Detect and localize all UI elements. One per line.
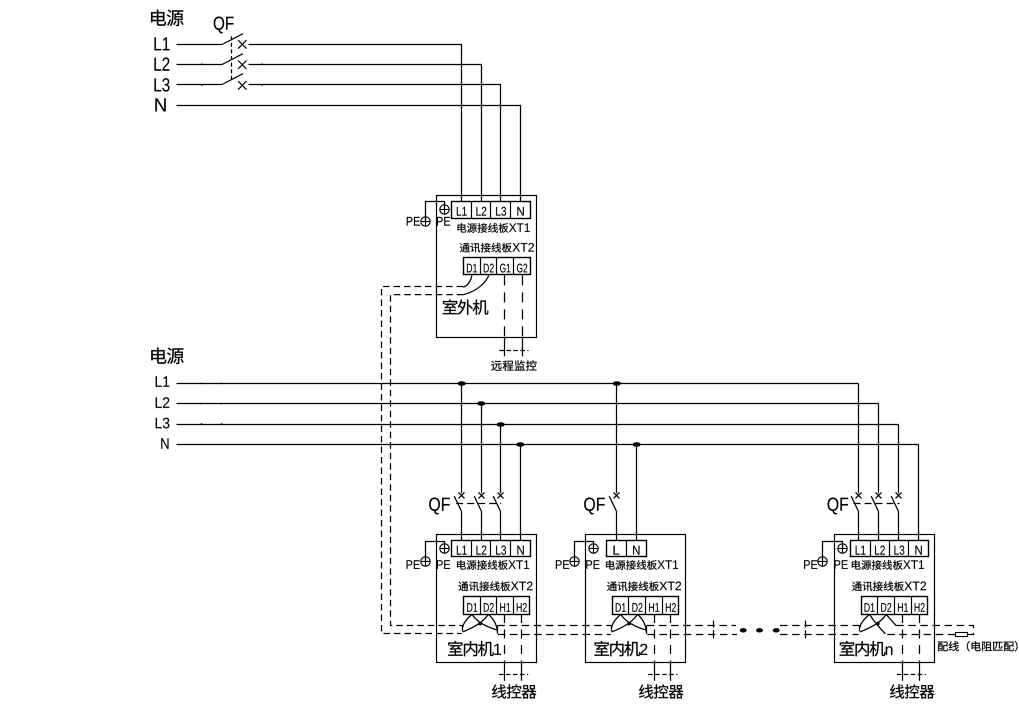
wire drop unit1 N — [520, 445, 522, 541]
comm bus outer dashed run (outdoor D1 to indoor lower) — [382, 287, 464, 634]
junction L1-unit1 — [458, 381, 466, 386]
terminal G2 (outdoor XT2) — [517, 264, 527, 273]
terminal L2 (室内机n XT1) — [875, 546, 885, 555]
comm bus lower segment unit2-dots — [647, 634, 737, 636]
terminal G1 (outdoor XT2) — [500, 264, 510, 273]
breaker blade unitn L1 — [851, 496, 858, 511]
terminal D1 (室内机2 XT2) — [616, 603, 626, 612]
earth terminal symbol inside 室内机n — [838, 544, 847, 553]
wire D1 to right bus — [472, 614, 498, 630]
wire G2 below box — [522, 338, 524, 357]
breaker blade unitn L3 — [891, 496, 898, 511]
label 电源 (top power source) — [151, 10, 183, 27]
wire H1 below box (室内机2) — [654, 663, 656, 681]
室内机2 comm terminal board XT2 — [613, 597, 679, 615]
wire H2 to wired controller (室内机1) — [521, 614, 523, 663]
breaker QF linkage (top) — [231, 36, 233, 80]
comm bus upper segment unit1-unit2 — [497, 625, 611, 627]
unit number 2 — [640, 644, 647, 655]
label 配线(电阻匹配) — [938, 641, 1018, 651]
wire unit1 L2 to XT1 — [481, 511, 483, 540]
unit number 1 — [494, 644, 501, 655]
crossover junction dot (unitn) — [876, 622, 880, 626]
wire D2 to termination upper — [886, 614, 896, 625]
wire H2 below box (室内机2) — [670, 663, 672, 681]
label 电源接线板 (outdoor XT1) — [458, 223, 509, 233]
wire G2 to remote monitor — [522, 275, 524, 337]
wire D2 to right bus — [488, 614, 497, 632]
label 电源接线板 (室内机1 XT1) — [457, 560, 508, 570]
wire L2 to outdoor XT1 — [249, 65, 482, 202]
wire joint specks (top) — [201, 63, 203, 65]
label 通讯接线板 (室内机2 XT2) — [607, 581, 659, 591]
outdoor comm terminal board XT2 — [464, 258, 531, 275]
XT1 divider 2 (outdoor) — [490, 201, 492, 218]
wire joint specks (lower) — [201, 383, 203, 385]
wire L2 to breaker (top) — [177, 64, 223, 66]
terminal D2 (室内机n XT2) — [881, 603, 891, 612]
terminal L2 (室内机1 XT1) — [476, 546, 486, 555]
terminal L (室内机2 XT1) — [613, 546, 619, 555]
wire unitn L1 to XT1 — [858, 511, 860, 540]
XT2 divider 3 (outdoor) — [513, 258, 515, 275]
wire H1 to wired controller (室内机2) — [654, 614, 656, 663]
wire H2 below box (室内机1) — [521, 663, 523, 681]
earth terminal symbol inside 室内机2 — [589, 544, 598, 553]
PE label left (outdoor) — [407, 217, 420, 226]
bus break tick 2 lower — [805, 630, 807, 638]
terminal D2 (室内机1 XT2) — [484, 603, 494, 612]
PE label right (室内机n) — [834, 560, 847, 569]
wire drop unit1 L1 — [461, 384, 463, 494]
wired controller cable marker (室内机2) — [648, 674, 677, 676]
label 电源 (lower power source) — [151, 348, 183, 365]
outdoor power terminal board XT1 — [452, 202, 531, 219]
wire N feeder (lower) — [177, 444, 919, 446]
junction L3-unit1 — [497, 422, 505, 427]
wire D2 to left bus (unitn) — [860, 614, 886, 632]
wire H1 to wired controller (室内机n) — [902, 614, 904, 663]
comm bus lower segment dots-unitn — [780, 634, 859, 636]
breaker contact x unit2 L — [614, 492, 620, 498]
wire drop unit2 L — [616, 384, 618, 494]
wire D1 to left bus (unitn) — [860, 614, 870, 627]
bus stub right — [497, 626, 499, 634]
indoor unit box 室内机1 — [437, 535, 537, 663]
室内机n XT2 divider 1 — [877, 597, 879, 614]
wire N to outdoor XT1 — [177, 106, 521, 202]
terminal H2 (室内机1 XT2) — [517, 603, 527, 612]
label 室外机 (outdoor unit) — [443, 299, 489, 314]
PE wire (室内机2) — [575, 542, 594, 562]
terminal N (室内机1 XT1) — [517, 546, 523, 555]
breaker blade unitn L2 — [871, 496, 878, 511]
breaker QF pole L1 blade — [222, 34, 243, 45]
junction N-unit2 — [633, 442, 641, 447]
室内机2 XT2 divider 2 — [645, 597, 647, 614]
wire L2 feeder (lower) — [177, 403, 879, 405]
terminal H1 (室内机n XT2) — [898, 603, 908, 612]
室内机1 comm terminal board XT2 — [464, 597, 530, 615]
breaker QF pole L2 contact x — [238, 61, 246, 69]
bus break tick 2 upper — [805, 621, 807, 628]
wire H2 below box (室内机n) — [919, 663, 921, 681]
wired controller cable marker (室内机1) — [499, 674, 528, 676]
PE label right (室内机2) — [586, 560, 599, 569]
室内机n XT1 divider 1 — [870, 540, 872, 557]
junction N-unit1 — [516, 442, 524, 447]
indoor unit box 室内机n — [835, 535, 935, 663]
breaker blade unit1 L2 — [474, 496, 481, 511]
wire outdoor D2 to bus — [463, 275, 489, 294]
XT1 divider 1 (outdoor) — [471, 201, 473, 218]
bus break tick 1 lower — [713, 630, 715, 638]
label 通讯接线板 (室内机1 XT2) — [459, 581, 511, 591]
remote monitor cable marker — [499, 350, 528, 352]
PE earth symbol (outdoor) — [421, 217, 430, 226]
terminal H2 (室内机2 XT2) — [666, 603, 676, 612]
breaker contact x unit1 L3 — [498, 492, 504, 498]
label 室内机n — [840, 641, 886, 656]
node L1 label (lower) — [156, 376, 170, 386]
resistor matching resistor — [956, 633, 968, 637]
breaker QF linkage unit1 — [456, 503, 501, 505]
terminal D2 (室内机2 XT2) — [632, 603, 642, 612]
termination loop lower dashed — [886, 634, 956, 636]
label 线控器 (室内机2) — [639, 684, 683, 698]
terminal N (outdoor XT1) — [517, 207, 523, 216]
terminal L1 (outdoor XT1) — [457, 207, 467, 216]
wire unitn L3 to XT1 — [898, 511, 900, 540]
wire drop unit2 N — [636, 445, 638, 541]
wire D1 to left bus — [463, 614, 472, 627]
label 电源接线板 (室内机n XT1) — [852, 560, 903, 570]
室内机1 XT2 divider 3 — [513, 597, 515, 614]
comm bus lower segment unit1-unit2 — [498, 634, 611, 636]
室内机1 XT1 divider 3 — [510, 540, 512, 557]
室内机1 XT2 divider 2 — [496, 597, 498, 614]
earth terminal symbol inside 室内机1 — [440, 544, 449, 553]
breaker contact x unit1 L1 — [459, 492, 465, 498]
terminal D1 (outdoor XT2) — [467, 264, 477, 273]
label 远程监控 (remote monitoring) — [491, 360, 536, 370]
bus break tick 1 upper — [713, 621, 715, 628]
wire L3 to breaker (top) — [177, 84, 223, 86]
wire L1 feeder (lower) — [177, 383, 859, 385]
室内机n power terminal board XT1 — [851, 541, 929, 557]
earth terminal symbol inside outdoor box — [440, 205, 449, 214]
crossover junction dot — [627, 622, 631, 626]
terminal L3 (室内机n XT1) — [894, 546, 904, 555]
XT1 divider 3 (outdoor) — [510, 201, 512, 218]
terminal H2 (室内机n XT2) — [915, 603, 925, 612]
wire H1 below box (室内机1) — [504, 663, 506, 681]
wire unit1 L1 to XT1 — [461, 511, 463, 540]
breaker contact x unit1 L2 — [479, 492, 485, 498]
wire unit1 L3 to XT1 — [500, 511, 502, 540]
node L3 label (lower) — [156, 418, 170, 429]
node L2 label (lower) — [156, 397, 170, 408]
室内机n XT2 divider 3 — [911, 597, 913, 614]
label 线控器 (室内机1) — [492, 684, 536, 698]
wire H1 to wired controller (室内机1) — [504, 614, 506, 663]
室内机n comm terminal board XT2 — [862, 597, 928, 615]
terminal D1 (室内机1 XT2) — [467, 603, 477, 612]
PE label left (室内机2) — [556, 560, 569, 569]
breaker QF label unitn — [828, 498, 849, 515]
breaker blade unit2 L — [609, 496, 616, 511]
PE earth symbol (室内机2) — [570, 557, 579, 566]
node L1 label (top) — [154, 37, 169, 50]
wire G1 to remote monitor — [504, 275, 506, 337]
PE earth symbol (室内机n) — [818, 557, 827, 566]
wire H2 to wired controller (室内机2) — [670, 614, 672, 663]
breaker QF label (top) — [214, 17, 234, 34]
breaker QF label unit1 — [429, 498, 450, 515]
terminal D1 (室内机n XT2) — [865, 603, 875, 612]
wire D2 to right bus — [637, 614, 646, 632]
junction L1-unit2 — [613, 381, 621, 386]
wire D1 to left bus — [612, 614, 621, 627]
室内机n XT1 divider 2 — [889, 540, 891, 557]
label 室内机1 — [448, 641, 494, 656]
wire unitn L2 to XT1 — [878, 511, 880, 540]
indoor unit box 室内机2 — [586, 535, 686, 663]
wire D1 to termination lower — [870, 614, 886, 634]
XT2 divider 2 (outdoor) — [496, 258, 498, 275]
terminal D2 (outdoor XT2) — [484, 264, 494, 273]
PE label left (室内机1) — [406, 560, 419, 569]
室内机2 power terminal board XT1 — [607, 541, 647, 557]
terminal L1 (室内机1 XT1) — [457, 546, 467, 555]
crossover junction dot — [478, 622, 482, 626]
室内机2 XT1 divider 1 — [626, 540, 628, 557]
node N label (lower) — [161, 438, 168, 448]
terminal H1 (室内机2 XT2) — [649, 603, 659, 612]
wire L3 feeder (lower) — [177, 424, 899, 426]
wire drop unit1 L2 — [481, 404, 483, 494]
PE label right (outdoor) — [437, 217, 450, 226]
terminal L1 (室内机n XT1) — [856, 546, 866, 555]
wire drop unitn L3 — [898, 425, 900, 494]
wire H1 below box (室内机n) — [902, 663, 904, 681]
PE label right (室内机1) — [437, 560, 450, 569]
breaker contact x unitn L2 — [876, 492, 882, 498]
comm bus inner dashed run (outdoor D2 to indoor upper) — [391, 295, 464, 626]
室内机2 XT2 divider 1 — [628, 597, 630, 614]
label 通讯接线板 (outdoor XT2) — [460, 243, 512, 253]
室内机1 XT2 divider 1 — [480, 597, 482, 614]
室内机1 power terminal board XT1 — [452, 541, 531, 557]
terminal L3 (室内机1 XT1) — [496, 546, 506, 555]
terminal N (室内机2 XT1) — [633, 546, 639, 555]
室内机2 XT2 divider 3 — [662, 597, 664, 614]
bus stub left — [462, 626, 464, 632]
node L3 label (top) — [154, 78, 169, 91]
wire L3 to outdoor XT1 — [249, 85, 501, 202]
wire outdoor D1 to bus — [463, 275, 472, 287]
terminal H1 (室内机1 XT2) — [500, 603, 510, 612]
PE wire (室内机n) — [823, 542, 843, 562]
terminal N (室内机n XT1) — [915, 546, 921, 555]
室内机1 XT1 divider 1 — [471, 540, 473, 557]
label 线控器 (室内机n) — [890, 684, 934, 698]
wire drop unitn N — [918, 445, 920, 541]
breaker QF pole L2 blade — [222, 54, 243, 65]
XT2 divider 1 (outdoor) — [480, 258, 482, 275]
wire G1 below box — [504, 338, 506, 357]
ellipsis dots (more units) — [740, 628, 747, 632]
wire L1 to outdoor XT1 — [249, 45, 462, 202]
breaker QF pole L1 contact x — [238, 40, 246, 48]
bus stub left — [611, 626, 613, 632]
breaker blade unit1 L3 — [493, 496, 500, 511]
termination loop upper dashed — [896, 626, 973, 635]
label 电源接线板 (室内机2 XT1) — [606, 560, 657, 570]
室内机n XT2 divider 2 — [894, 597, 896, 614]
室内机1 XT1 divider 2 — [490, 540, 492, 557]
wire D2 to left bus — [463, 614, 489, 632]
PE wire (室内机1) — [426, 542, 445, 562]
comm bus upper segment dots-unitn — [780, 625, 860, 627]
PE wire (outdoor) — [426, 202, 445, 222]
wire unit2 L to XT1 — [616, 511, 618, 540]
breaker QF pole L3 blade — [222, 74, 243, 85]
junction L2-unit1 — [477, 401, 485, 406]
breaker contact x unitn L1 — [856, 492, 862, 498]
wired controller cable marker (室内机n) — [897, 674, 926, 676]
PE earth symbol (室内机1) — [421, 557, 430, 566]
wire drop unitn L2 — [878, 404, 880, 494]
breaker QF pole L3 contact x — [238, 81, 246, 89]
node L2 label (top) — [154, 57, 169, 70]
breaker blade unit1 L1 — [454, 496, 461, 511]
breaker contact x unitn L3 — [896, 492, 902, 498]
breaker QF label unit2 — [584, 498, 605, 515]
label 通讯接线板 (室内机n XT2) — [852, 581, 904, 591]
wire D2 to left bus — [612, 614, 638, 632]
wire H2 to wired controller (室内机n) — [919, 614, 921, 663]
bus stub right — [646, 626, 648, 634]
node N label (top) — [155, 98, 165, 111]
comm bus upper segment unit2-dots — [647, 625, 736, 627]
bus stub left (unitn) — [859, 626, 861, 632]
PE label left (室内机n) — [804, 560, 817, 569]
breaker QF linkage unitn — [854, 503, 900, 505]
wire D1 to right bus — [621, 614, 647, 630]
label 室内机2 — [594, 641, 640, 656]
terminal L3 (outdoor XT1) — [496, 207, 506, 216]
wire drop unitn L1 — [858, 384, 860, 494]
unit number n — [886, 646, 893, 655]
terminal L2 (outdoor XT1) — [476, 207, 486, 216]
outdoor unit box 室外机 — [437, 196, 537, 338]
室内机n XT1 divider 3 — [908, 540, 910, 557]
wire drop unit1 L3 — [500, 425, 502, 494]
wire L1 to breaker (top) — [177, 44, 223, 46]
